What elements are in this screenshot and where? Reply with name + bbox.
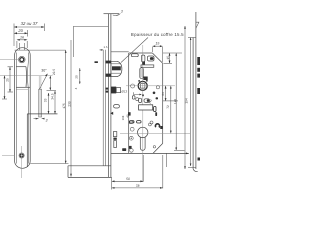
svg-text:Epaisseur du coffre 15.5: Epaisseur du coffre 15.5	[131, 32, 184, 37]
svg-text:3: 3	[46, 119, 48, 123]
two dark capsules row	[130, 121, 141, 123]
cylinder screw edge view	[113, 132, 116, 148]
svg-text:22.5: 22.5	[52, 69, 56, 75]
angle label 30deg	[39, 69, 47, 90]
svg-text:20: 20	[17, 28, 23, 33]
dimension 15 right	[163, 53, 182, 63]
right dimension 24	[161, 86, 178, 101]
lock case outline side view	[111, 53, 189, 154]
dark capsule right of box	[154, 106, 156, 111]
svg-text:78: 78	[136, 184, 140, 188]
right dimension 148	[174, 53, 185, 150]
svg-text:175: 175	[62, 103, 66, 109]
dimension 175	[30, 50, 68, 163]
micro dim 1.5	[100, 45, 108, 51]
small capsule row	[139, 97, 158, 103]
svg-text:1.5: 1.5	[104, 45, 108, 49]
centerline top hole	[0, 59, 18, 61]
dimension 3 plate thickness top	[113, 10, 123, 16]
side circles near follower	[131, 84, 135, 88]
dimension 20	[14, 28, 28, 37]
strike step outline	[27, 114, 57, 167]
dimension 32 ou 37	[14, 21, 44, 46]
svg-text:20: 20	[75, 75, 79, 79]
latch bolt edge view	[106, 61, 122, 77]
faceplate front view	[15, 48, 31, 169]
lever box	[139, 105, 153, 110]
svg-text:3: 3	[121, 10, 123, 14]
lever pad with dark pin	[147, 56, 154, 61]
centerline latch axis	[0, 75, 53, 77]
lock edge view faceplate strip	[103, 14, 119, 178]
small circle bottom right	[153, 146, 155, 148]
case top edge in side view	[111, 51, 129, 53]
latch tail above section bar	[38, 76, 40, 89]
projection line from plate top	[15, 50, 66, 163]
spring capsule top	[131, 54, 138, 57]
small arrow mark	[110, 112, 113, 115]
extension line case bottom right	[166, 153, 168, 167]
circlip	[155, 124, 159, 128]
svg-text:34.5: 34.5	[51, 93, 55, 99]
bottom circle	[130, 149, 134, 153]
small dark square	[142, 61, 145, 64]
svg-text:15: 15	[166, 56, 170, 60]
dimension 78	[112, 155, 163, 189]
follower nut	[138, 80, 148, 90]
faceplate bottom screw hole	[19, 153, 24, 158]
svg-text:Ø13: Ø13	[122, 89, 128, 93]
svg-text:230: 230	[67, 101, 71, 107]
tiny dark rect upper	[155, 112, 157, 116]
svg-text:72: 72	[166, 105, 170, 109]
right faceplate latch marks	[197, 57, 200, 161]
bottom dark capsule	[122, 148, 126, 151]
right dimension 72	[166, 86, 172, 134]
right dimension 194	[184, 26, 189, 169]
dimension 15 top	[152, 41, 162, 62]
faceplate section bar	[39, 89, 42, 117]
dimension 22.5	[47, 69, 57, 91]
svg-text:194: 194	[185, 98, 189, 104]
right faceplate edge view	[188, 12, 199, 172]
screw head dark	[129, 146, 132, 149]
horizontal bar	[141, 65, 154, 67]
parts below follower	[132, 92, 155, 101]
dimension 16	[17, 35, 27, 50]
svg-text:33: 33	[44, 98, 48, 102]
svg-text:16: 16	[20, 35, 24, 39]
deadbolt edge view	[106, 87, 128, 94]
follower spring block	[143, 77, 147, 81]
small circle right	[150, 121, 153, 124]
small tick near latch projection	[95, 61, 98, 63]
centerline bottom hole	[2, 155, 15, 157]
cylinder euro profile	[138, 127, 148, 150]
left vertical dimension 25	[5, 67, 13, 92]
svg-text:50: 50	[126, 177, 130, 181]
vertical capsule	[141, 55, 145, 62]
bottom box of edge view	[68, 166, 112, 178]
centerline bottom hole vertical	[21, 146, 23, 178]
tiny rotated dims 108 and 40	[121, 114, 133, 123]
thickness dimension 3	[34, 118, 48, 123]
projection line upper to edge view	[73, 26, 108, 57]
svg-text:24: 24	[161, 92, 165, 96]
dimension 230	[67, 40, 72, 177]
centerline case vertical	[142, 45, 144, 182]
centerline cylinder	[120, 132, 190, 134]
svg-text:32 ou 37: 32 ou 37	[21, 21, 38, 26]
screw capsule edge view	[114, 105, 120, 108]
fixing screw circle	[130, 127, 134, 131]
epaisseur du coffre label	[121, 32, 184, 63]
case left small mark	[128, 112, 131, 115]
latch bolt front view	[16, 67, 30, 90]
left vertical dimension short	[2, 76, 7, 99]
dimension 34.5	[51, 91, 56, 114]
dimension 33	[44, 93, 50, 114]
svg-text:25: 25	[5, 78, 9, 82]
svg-text:108: 108	[121, 115, 125, 120]
spring coil	[140, 68, 144, 79]
faceplate top screw hole	[19, 56, 26, 63]
micro dims 20 and 4	[74, 68, 81, 89]
svg-text:148: 148	[174, 99, 178, 105]
svg-text:30°: 30°	[41, 69, 47, 73]
svg-text:15: 15	[155, 41, 159, 45]
dimension 50	[112, 155, 144, 190]
centerline follower	[126, 85, 175, 87]
